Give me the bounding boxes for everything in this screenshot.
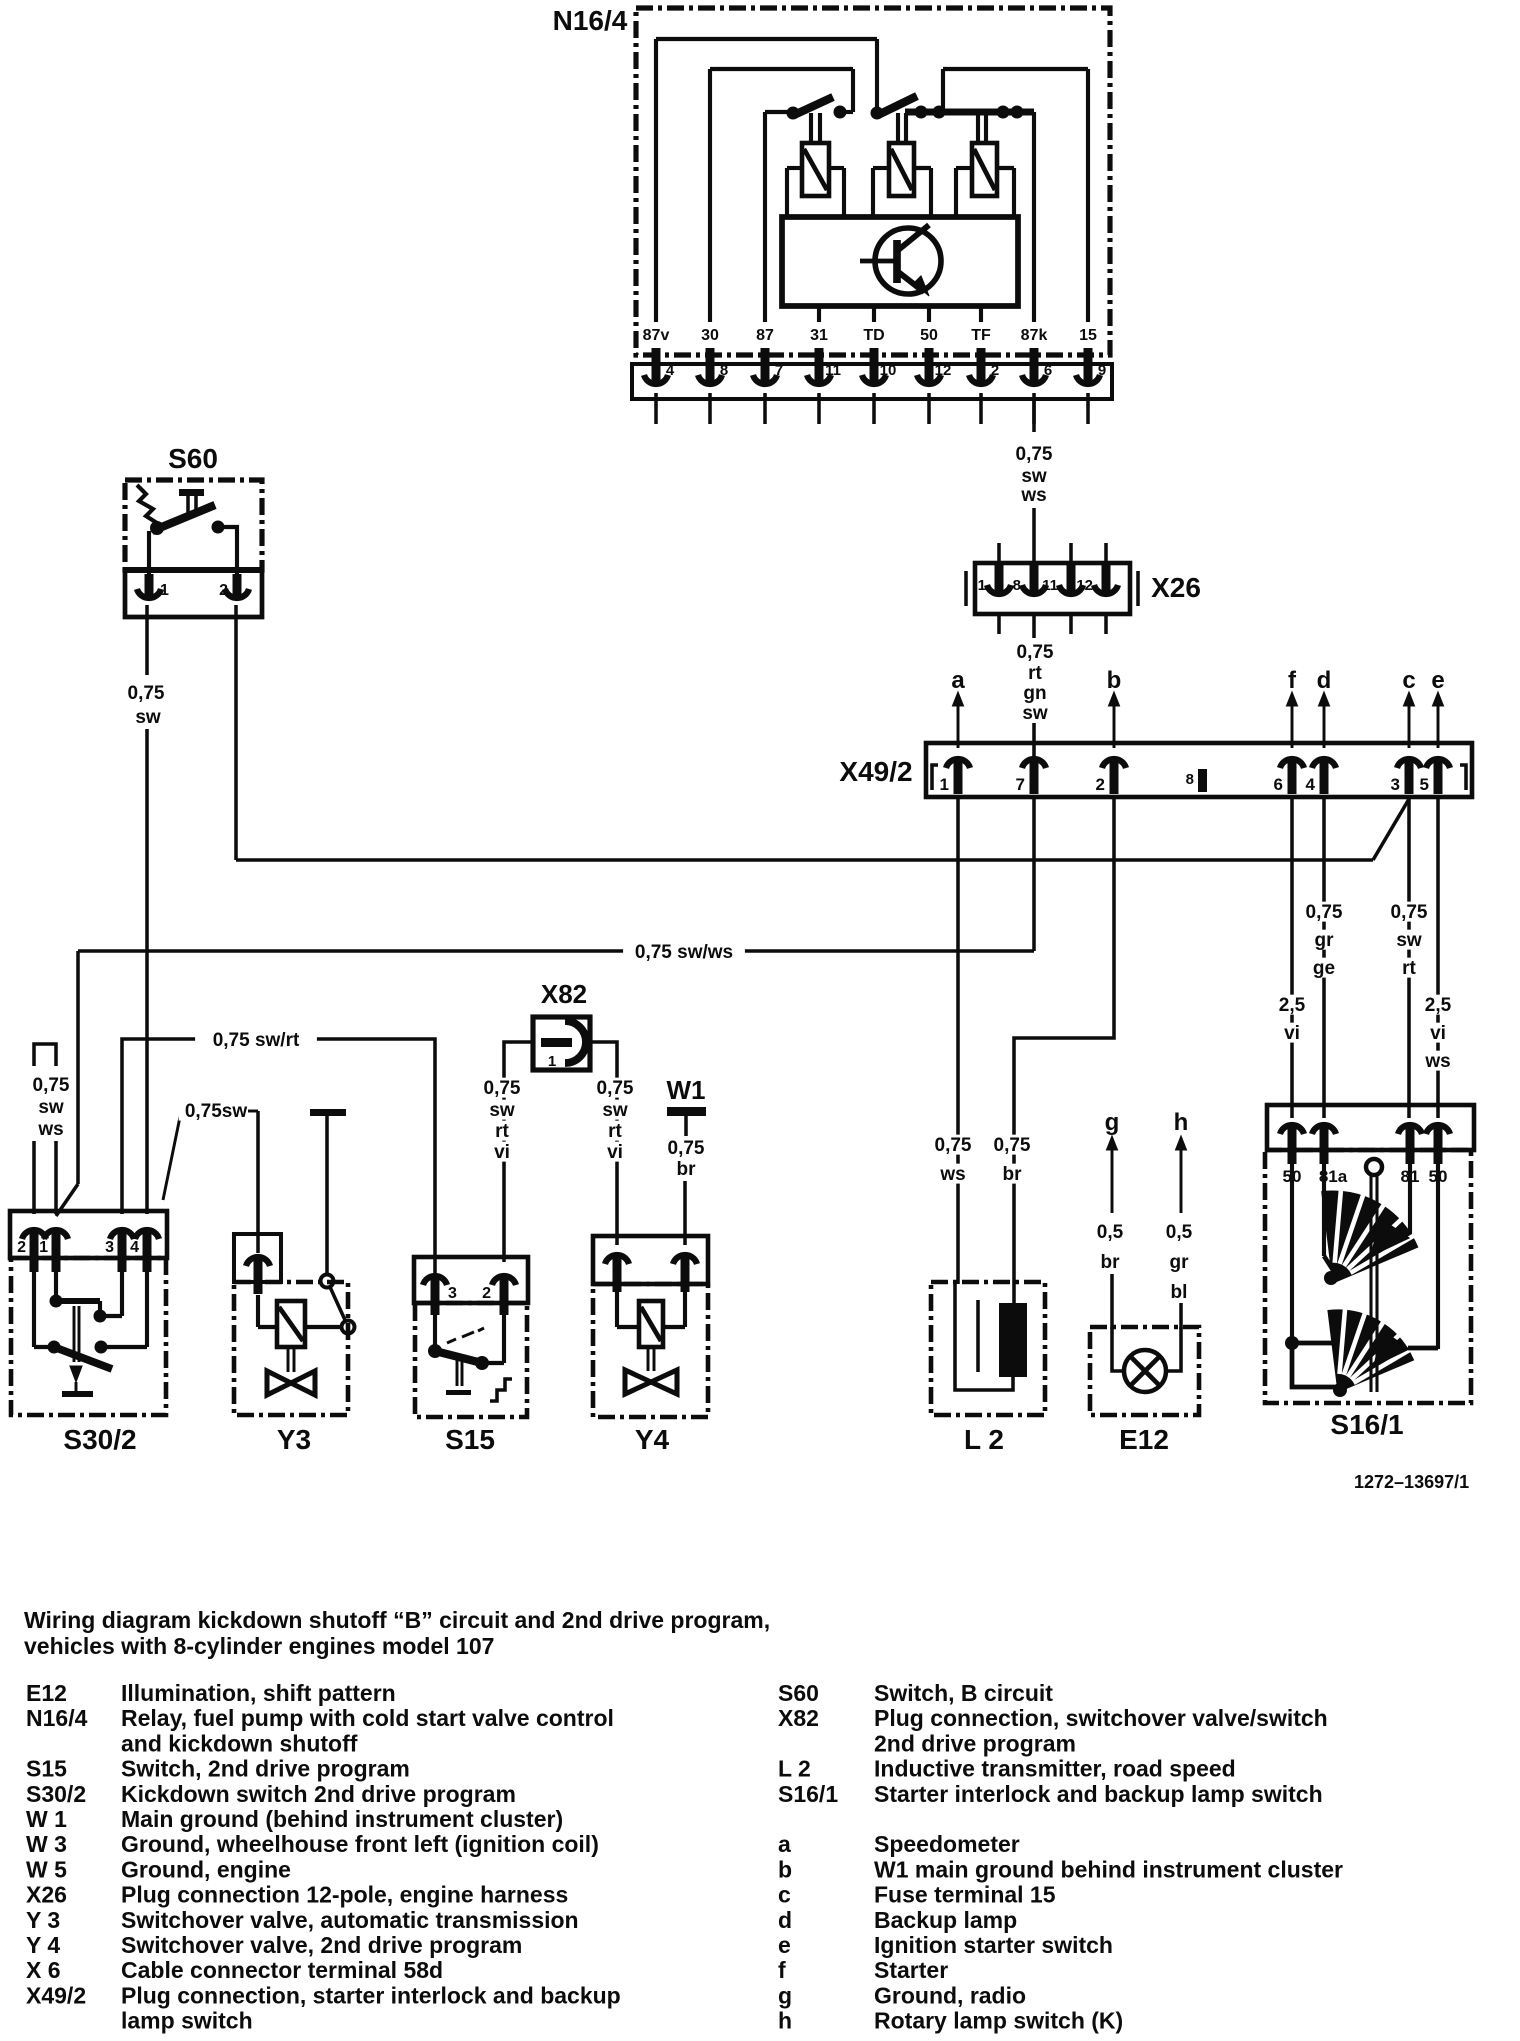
svg-text:7: 7 — [775, 362, 783, 379]
svg-text:1: 1 — [39, 1239, 48, 1256]
svg-text:X 6: X 6 — [26, 1957, 61, 1983]
svg-text:S30/2: S30/2 — [26, 1781, 86, 1807]
svg-text:Starter: Starter — [874, 1957, 948, 1983]
svg-text:a: a — [778, 1831, 791, 1857]
svg-text:50: 50 — [920, 327, 938, 344]
svg-text:2: 2 — [219, 582, 228, 599]
svg-text:X82: X82 — [541, 979, 587, 1009]
svg-text:X26: X26 — [26, 1882, 67, 1908]
svg-text:E12: E12 — [1119, 1424, 1169, 1455]
svg-text:W1: W1 — [667, 1075, 706, 1105]
svg-text:and kickdown shutoff: and kickdown shutoff — [121, 1730, 358, 1756]
svg-text:1: 1 — [548, 1053, 556, 1070]
svg-text:1272–13697/1: 1272–13697/1 — [1354, 1472, 1469, 1492]
svg-text:X49/2: X49/2 — [26, 1982, 86, 2008]
svg-text:Y 3: Y 3 — [26, 1907, 60, 1933]
svg-text:0,75: 0,75 — [1391, 902, 1428, 923]
svg-text:3: 3 — [1391, 775, 1400, 794]
svg-text:X82: X82 — [778, 1705, 819, 1731]
svg-text:87: 87 — [756, 327, 774, 344]
svg-text:0,75: 0,75 — [128, 683, 165, 704]
svg-text:4: 4 — [130, 1239, 139, 1256]
svg-text:15: 15 — [1079, 327, 1097, 344]
svg-text:Rotary lamp switch (K): Rotary lamp switch (K) — [874, 2008, 1123, 2034]
svg-text:rt: rt — [1028, 663, 1042, 684]
svg-text:Ground, engine: Ground, engine — [121, 1856, 291, 1882]
svg-text:L 2: L 2 — [964, 1424, 1004, 1455]
svg-text:4: 4 — [666, 362, 675, 379]
svg-text:W 3: W 3 — [26, 1831, 67, 1857]
svg-text:2: 2 — [1096, 775, 1105, 794]
svg-text:2: 2 — [17, 1239, 26, 1256]
svg-text:2nd drive program: 2nd drive program — [874, 1730, 1076, 1756]
svg-text:0,75: 0,75 — [1016, 444, 1053, 465]
svg-text:3: 3 — [105, 1239, 114, 1256]
svg-text:d: d — [1317, 667, 1332, 694]
svg-text:e: e — [778, 1932, 791, 1958]
svg-text:S60: S60 — [168, 443, 218, 474]
svg-text:2: 2 — [991, 362, 999, 379]
svg-text:sw: sw — [489, 1100, 515, 1121]
svg-text:a: a — [951, 667, 965, 694]
svg-text:Fuse terminal 15: Fuse terminal 15 — [874, 1882, 1056, 1908]
svg-text:vi: vi — [494, 1142, 510, 1163]
svg-text:vi: vi — [607, 1142, 623, 1163]
svg-text:0,75 sw/ws: 0,75 sw/ws — [635, 942, 733, 963]
svg-text:gn: gn — [1023, 683, 1046, 704]
svg-text:0,75: 0,75 — [994, 1135, 1031, 1156]
svg-text:5: 5 — [1420, 775, 1429, 794]
svg-text:sw: sw — [1021, 466, 1047, 487]
svg-text:d: d — [778, 1907, 792, 1933]
svg-text:rt: rt — [495, 1121, 509, 1142]
svg-text:L 2: L 2 — [778, 1756, 811, 1782]
svg-text:S16/1: S16/1 — [778, 1781, 838, 1807]
svg-text:0,75: 0,75 — [484, 1078, 521, 1099]
svg-text:8: 8 — [720, 362, 728, 379]
svg-text:10: 10 — [880, 362, 897, 379]
svg-text:br: br — [677, 1159, 697, 1180]
svg-text:1: 1 — [160, 582, 169, 599]
svg-text:N16/4: N16/4 — [26, 1705, 88, 1731]
svg-text:br: br — [1003, 1164, 1023, 1185]
svg-text:W 5: W 5 — [26, 1856, 67, 1882]
svg-text:vehicles with 8-cylinder engin: vehicles with 8-cylinder engines model 1… — [24, 1633, 494, 1659]
svg-text:rt: rt — [608, 1121, 622, 1142]
svg-text:30: 30 — [701, 327, 719, 344]
svg-text:0,75sw: 0,75sw — [185, 1101, 248, 1122]
svg-text:0,75: 0,75 — [1017, 642, 1054, 663]
svg-text:h: h — [778, 2008, 792, 2034]
svg-text:Ground, wheelhouse front left: Ground, wheelhouse front left (ignition … — [121, 1831, 599, 1857]
svg-text:ws: ws — [939, 1164, 965, 1185]
svg-text:W1 main ground behind instrume: W1 main ground behind instrument cluster — [874, 1856, 1343, 1882]
svg-text:0,75 sw/rt: 0,75 sw/rt — [213, 1030, 300, 1051]
svg-text:ge: ge — [1313, 958, 1335, 979]
svg-text:0,75: 0,75 — [935, 1135, 972, 1156]
svg-text:9: 9 — [1098, 362, 1106, 379]
svg-text:X26: X26 — [1151, 572, 1201, 603]
svg-text:2,5: 2,5 — [1279, 995, 1306, 1016]
svg-text:TF: TF — [971, 327, 991, 344]
svg-text:Ground, radio: Ground, radio — [874, 1982, 1026, 2008]
svg-text:c: c — [1402, 667, 1415, 694]
svg-text:11: 11 — [825, 362, 841, 379]
svg-text:Plug connection 12-pole, engin: Plug connection 12-pole, engine harness — [121, 1882, 568, 1908]
svg-text:gr: gr — [1315, 930, 1335, 951]
svg-text:Relay, fuel pump with cold sta: Relay, fuel pump with cold start valve c… — [121, 1705, 614, 1731]
svg-text:g: g — [778, 1982, 792, 2008]
svg-text:b: b — [1107, 667, 1122, 694]
svg-text:12: 12 — [1076, 577, 1093, 594]
svg-text:8: 8 — [1186, 771, 1194, 788]
svg-text:0,75: 0,75 — [668, 1138, 705, 1159]
svg-text:8: 8 — [1013, 577, 1021, 594]
svg-text:vi: vi — [1430, 1023, 1446, 1044]
svg-text:S15: S15 — [445, 1424, 495, 1455]
svg-text:sw: sw — [38, 1097, 64, 1118]
svg-text:2,5: 2,5 — [1425, 995, 1452, 1016]
svg-text:h: h — [1174, 1109, 1189, 1136]
svg-text:Cable connector terminal 58d: Cable connector terminal 58d — [121, 1957, 443, 1983]
svg-text:b: b — [778, 1856, 792, 1882]
svg-text:g: g — [1105, 1109, 1120, 1136]
svg-text:Switchover valve, automatic tr: Switchover valve, automatic transmission — [121, 1907, 579, 1933]
svg-text:sw: sw — [135, 707, 161, 728]
svg-text:Switch, B circuit: Switch, B circuit — [874, 1680, 1053, 1706]
svg-text:12: 12 — [935, 362, 952, 379]
svg-text:Wiring diagram kickdown shutof: Wiring diagram kickdown shutoff “B” circ… — [24, 1607, 770, 1633]
svg-text:f: f — [1288, 667, 1297, 694]
svg-text:Switchover valve, 2nd drive pr: Switchover valve, 2nd drive program — [121, 1932, 522, 1958]
svg-text:11: 11 — [1042, 577, 1058, 594]
svg-text:87k: 87k — [1021, 327, 1048, 344]
svg-text:Y4: Y4 — [635, 1424, 670, 1455]
svg-text:Backup lamp: Backup lamp — [874, 1907, 1017, 1933]
svg-text:Kickdown switch 2nd drive prog: Kickdown switch 2nd drive program — [121, 1781, 516, 1807]
svg-text:0,75: 0,75 — [1306, 902, 1343, 923]
svg-text:bl: bl — [1171, 1282, 1188, 1303]
svg-text:e: e — [1431, 667, 1444, 694]
svg-text:Speedometer: Speedometer — [874, 1831, 1020, 1857]
svg-text:TD: TD — [863, 327, 884, 344]
svg-text:ws: ws — [37, 1119, 63, 1140]
svg-text:Main ground (behind instrument: Main ground (behind instrument cluster) — [121, 1806, 563, 1832]
svg-text:0,75: 0,75 — [597, 1078, 634, 1099]
svg-text:Plug connection, switchover va: Plug connection, switchover valve/switch — [874, 1705, 1328, 1731]
svg-text:c: c — [778, 1882, 791, 1908]
svg-text:vi: vi — [1284, 1023, 1300, 1044]
svg-text:1: 1 — [978, 577, 986, 594]
svg-text:E12: E12 — [26, 1680, 67, 1706]
svg-text:W 1: W 1 — [26, 1806, 67, 1832]
svg-text:3: 3 — [448, 1285, 457, 1302]
svg-text:6: 6 — [1274, 775, 1283, 794]
svg-text:sw: sw — [1022, 703, 1048, 724]
svg-text:87v: 87v — [643, 327, 670, 344]
svg-text:6: 6 — [1044, 362, 1052, 379]
svg-text:Switch, 2nd drive program: Switch, 2nd drive program — [121, 1756, 410, 1782]
svg-text:gr: gr — [1170, 1252, 1190, 1273]
svg-text:0,5: 0,5 — [1097, 1222, 1124, 1243]
svg-text:f: f — [778, 1957, 786, 1983]
svg-text:Inductive transmitter, road sp: Inductive transmitter, road speed — [874, 1756, 1236, 1782]
svg-text:Y3: Y3 — [277, 1424, 311, 1455]
svg-text:7: 7 — [1016, 775, 1025, 794]
svg-text:0,75: 0,75 — [33, 1075, 70, 1096]
svg-text:S60: S60 — [778, 1680, 819, 1706]
svg-text:sw: sw — [602, 1100, 628, 1121]
svg-text:N16/4: N16/4 — [553, 5, 628, 36]
svg-text:S30/2: S30/2 — [63, 1424, 136, 1455]
svg-text:br: br — [1101, 1252, 1121, 1273]
svg-text:lamp switch: lamp switch — [121, 2008, 253, 2034]
svg-text:sw: sw — [1396, 930, 1422, 951]
svg-text:X49/2: X49/2 — [839, 756, 912, 787]
svg-text:Starter interlock and backup l: Starter interlock and backup lamp switch — [874, 1781, 1323, 1807]
svg-text:2: 2 — [482, 1285, 491, 1302]
svg-text:1: 1 — [940, 775, 949, 794]
svg-text:Illumination, shift pattern: Illumination, shift pattern — [121, 1680, 396, 1706]
svg-text:0,5: 0,5 — [1166, 1222, 1193, 1243]
svg-text:rt: rt — [1402, 958, 1416, 979]
svg-text:ws: ws — [1020, 485, 1046, 506]
svg-text:Ignition starter switch: Ignition starter switch — [874, 1932, 1113, 1958]
svg-text:Y 4: Y 4 — [26, 1932, 60, 1958]
svg-text:Plug connection, starter inter: Plug connection, starter interlock and b… — [121, 1982, 621, 2008]
svg-text:4: 4 — [1306, 775, 1316, 794]
svg-text:31: 31 — [810, 327, 828, 344]
svg-text:S16/1: S16/1 — [1330, 1409, 1403, 1440]
svg-text:S15: S15 — [26, 1756, 67, 1782]
svg-text:ws: ws — [1424, 1051, 1450, 1072]
